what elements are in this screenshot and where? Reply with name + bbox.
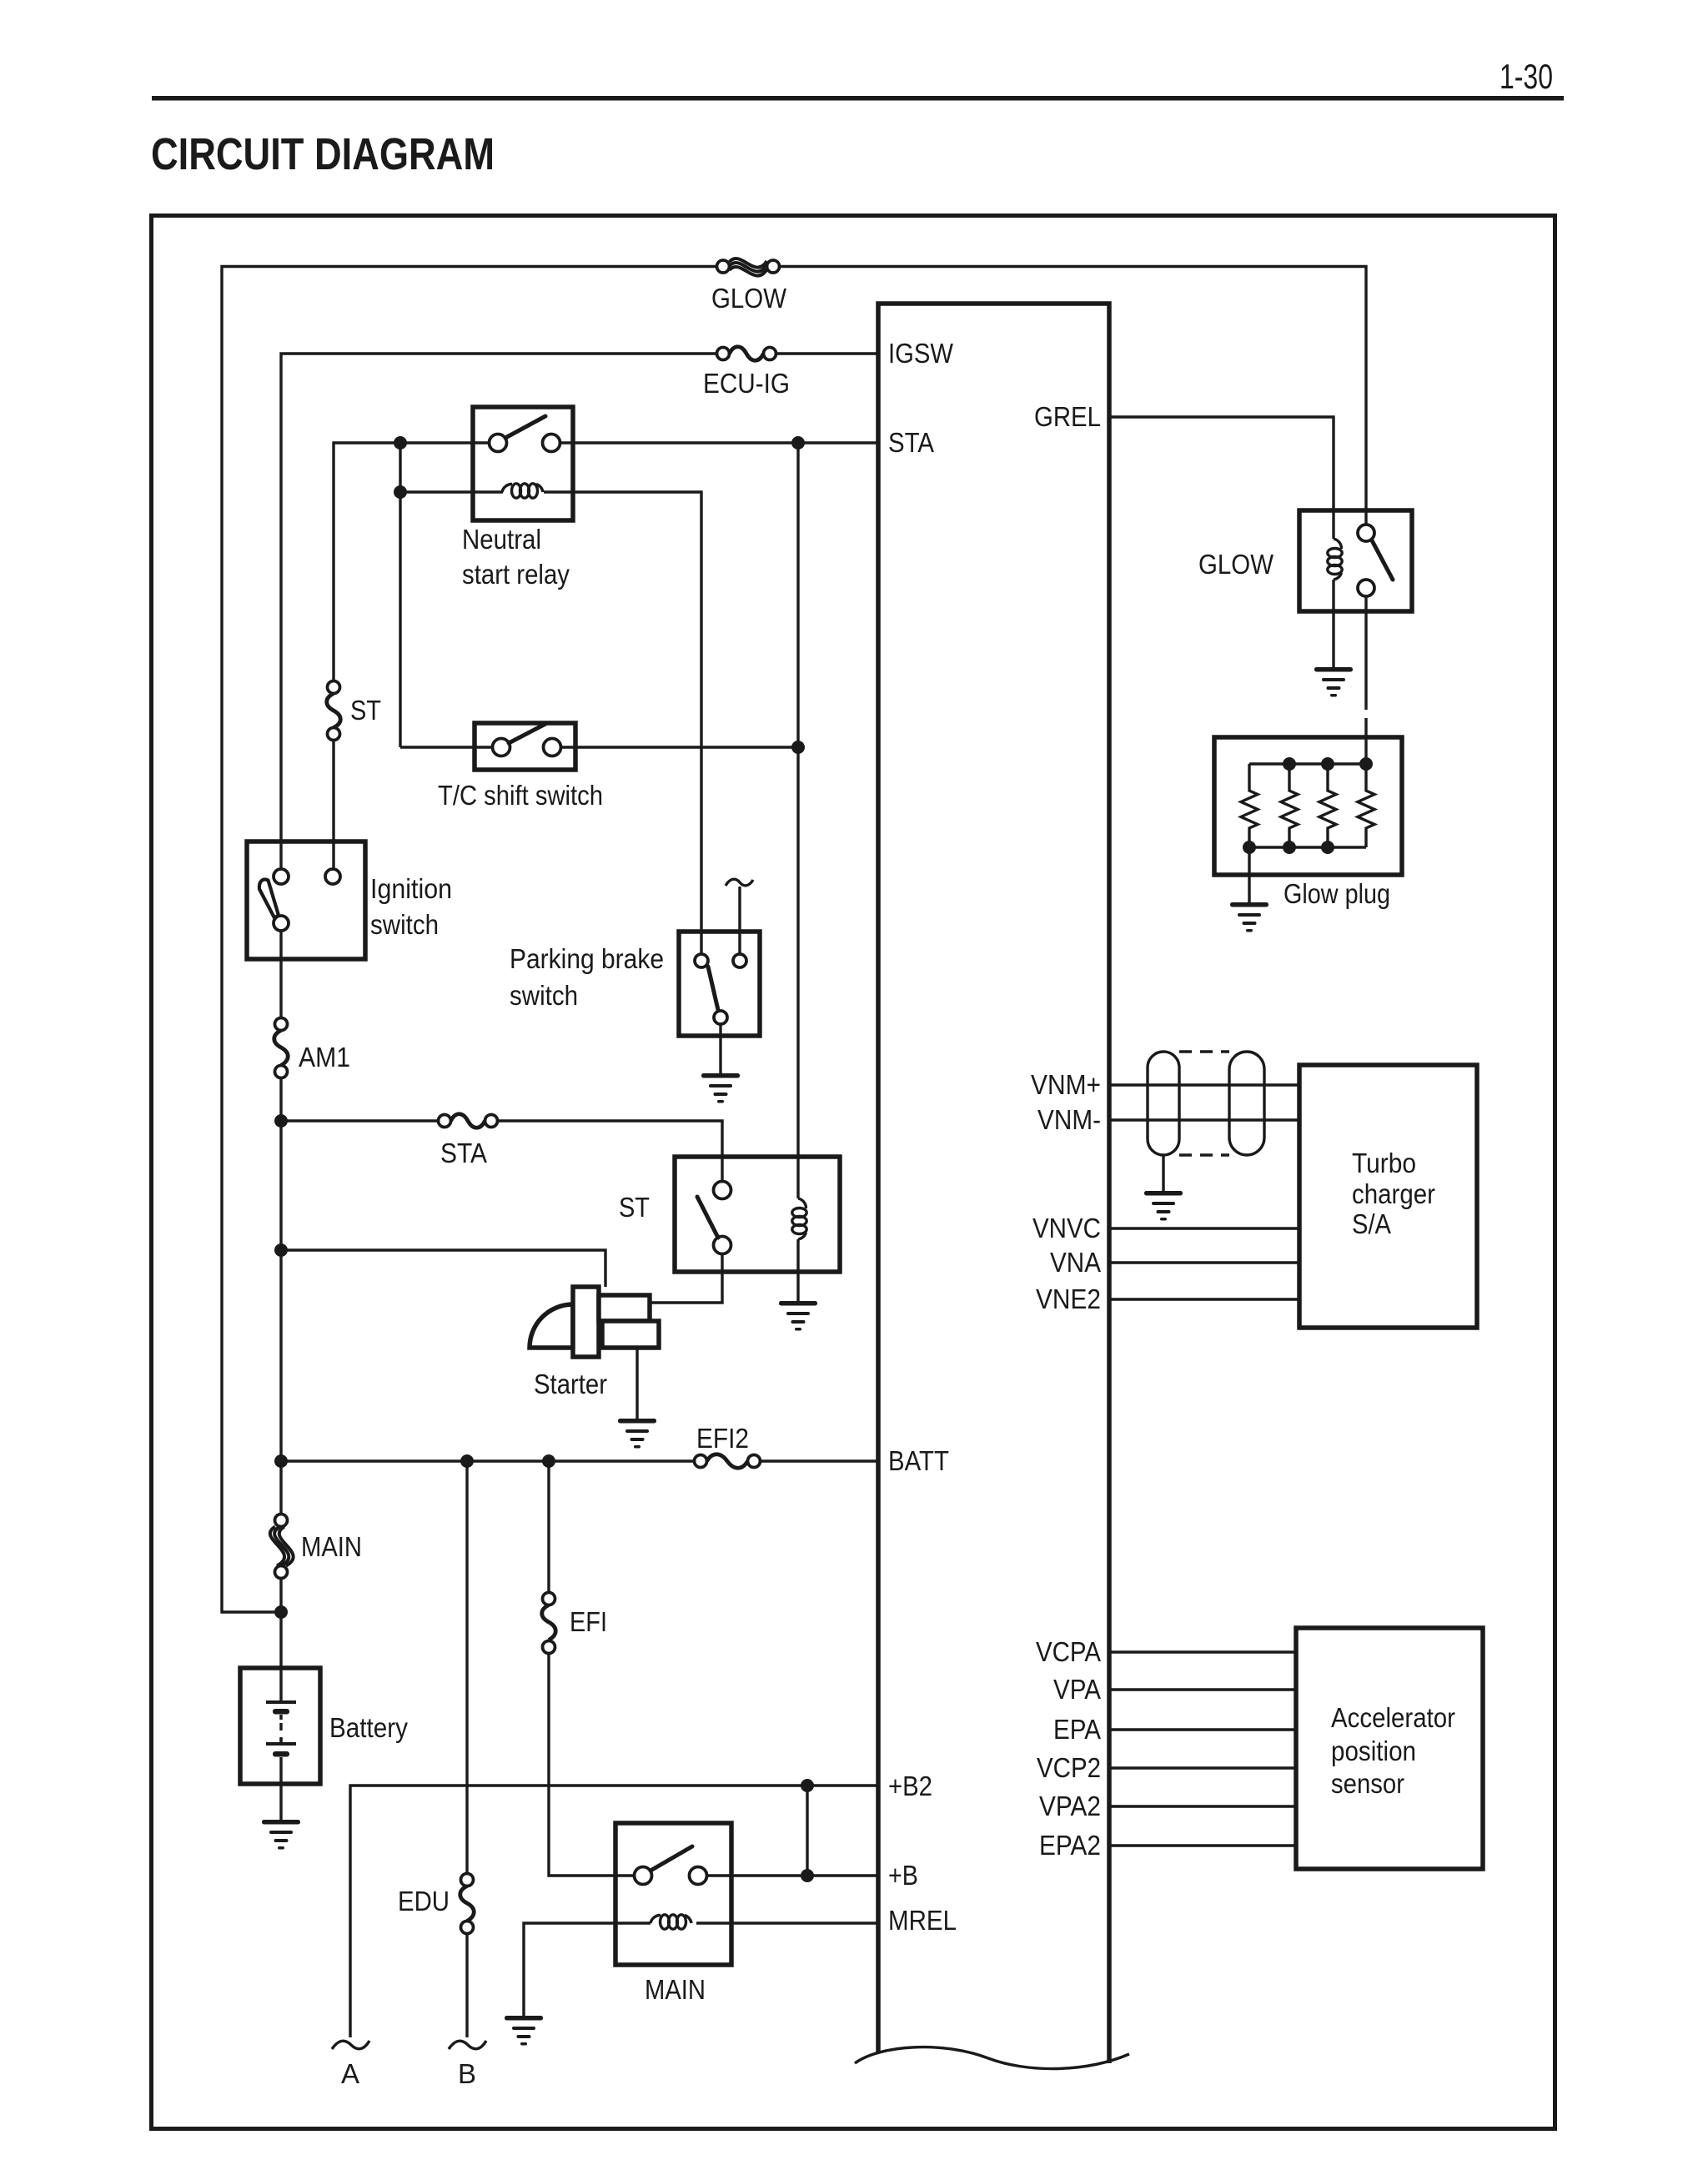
wire: T/C switch left xyxy=(400,746,493,748)
twisted pair shield dashes xyxy=(1179,1052,1229,1155)
svg-text:MAIN: MAIN xyxy=(301,1531,362,1562)
switch S2 T/C shift switch box xyxy=(475,723,575,770)
svg-text:STA: STA xyxy=(888,427,934,458)
label Parking brake switch xyxy=(510,943,664,1011)
node: coil junction at x480 xyxy=(394,485,407,499)
wire: VNA xyxy=(1109,1261,1299,1263)
svg-text:switch: switch xyxy=(510,980,578,1011)
svg-text:VCPA: VCPA xyxy=(1036,1636,1101,1667)
wire: VPA2 xyxy=(1109,1805,1296,1807)
wire: parking brake to ground xyxy=(719,1025,721,1074)
relay U4 lever xyxy=(1372,540,1393,580)
svg-text:ST: ST xyxy=(619,1192,650,1223)
svg-text:EDU: EDU xyxy=(398,1886,450,1916)
wire: MAIN fuse to battery xyxy=(279,1579,282,1701)
wire: VNVC xyxy=(1109,1227,1299,1229)
svg-text:charger: charger xyxy=(1352,1178,1435,1209)
wire: STA net right part to STA pin xyxy=(560,441,878,444)
resistor: glow plug 4 xyxy=(1358,764,1374,847)
node: T/C junction xyxy=(791,741,805,754)
svg-text:S/A: S/A xyxy=(1352,1208,1391,1239)
wire: VPA xyxy=(1109,1688,1296,1690)
wire: main battery feed line xyxy=(279,1078,282,1514)
wire: EFI to MAIN relay xyxy=(549,1654,635,1876)
relay U4 contacts xyxy=(1358,525,1374,596)
glow plug top bus xyxy=(1249,762,1366,765)
wire: ST relay coil to ground xyxy=(796,1239,799,1301)
relay U3 lever xyxy=(651,1846,692,1871)
svg-text:T/C shift switch: T/C shift switch xyxy=(438,780,603,811)
glow plug box xyxy=(1214,737,1402,875)
svg-text:VNE2: VNE2 xyxy=(1036,1283,1101,1314)
wire: EPA xyxy=(1109,1728,1296,1730)
svg-text:EFI: EFI xyxy=(570,1606,607,1637)
ground: starter xyxy=(618,1419,656,1449)
svg-text:Neutral: Neutral xyxy=(462,524,541,555)
resistor: glow plug 3 xyxy=(1319,764,1336,847)
relay U1 switch lever xyxy=(505,416,545,438)
wire: VCPA xyxy=(1109,1650,1296,1653)
switch S2 lever xyxy=(509,723,547,743)
ground: glow relay coil xyxy=(1314,667,1353,697)
wire: GLOW feed (left frame loop) xyxy=(222,267,717,1613)
wire: ignition to AM1 xyxy=(279,931,282,1018)
node: glow bus dots bottom xyxy=(1243,841,1334,854)
ECU bottom tear wave xyxy=(855,2047,1129,2069)
wire: ST relay output to starter xyxy=(650,1254,722,1304)
node: EFI branch junction xyxy=(542,1454,555,1468)
svg-text:ST: ST xyxy=(350,695,381,726)
svg-text:BATT: BATT xyxy=(888,1445,949,1476)
switch S1 contacts xyxy=(274,869,340,931)
wire: ECU-IG feed xyxy=(281,354,717,870)
wire: GLOW fuse to glow relay xyxy=(780,267,1367,525)
svg-text:MREL: MREL xyxy=(888,1905,957,1936)
svg-text:ECU-IG: ECU-IG xyxy=(703,368,790,399)
node: starter branch junction xyxy=(274,1243,288,1257)
turbo charger S/A box xyxy=(1299,1065,1477,1328)
wire: ECU-IG fuse to IGSW pin xyxy=(776,352,879,354)
svg-text:GREL: GREL xyxy=(1034,401,1101,432)
battery B1 box xyxy=(240,1668,320,1784)
svg-text:EFI2: EFI2 xyxy=(696,1423,749,1454)
border frame xyxy=(152,216,1555,2129)
relay U1 switch contacts xyxy=(490,435,560,452)
fuse GLOW (fusible link) xyxy=(717,259,780,276)
wire: STA net left part xyxy=(334,443,489,681)
starter M1 body rect xyxy=(573,1287,599,1357)
wire: battery to ground xyxy=(279,1757,282,1820)
switch S3 lever xyxy=(708,967,718,1010)
node: STA fuse junction xyxy=(274,1114,288,1128)
wire: coil feed from x480 xyxy=(400,490,503,493)
header rule xyxy=(152,96,1564,101)
fuse STA xyxy=(439,1114,498,1128)
switch S3 Parking brake switch box xyxy=(679,932,760,1036)
fuse EFI2 xyxy=(695,1454,761,1469)
tilde: connector B xyxy=(449,2041,486,2049)
wire: ST fuse to ignition switch xyxy=(332,741,334,870)
wire: STA fuse to ST relay xyxy=(498,1121,723,1182)
svg-text:Ignition: Ignition xyxy=(370,873,452,904)
wire: +B2 to +B link xyxy=(806,1786,808,1876)
wire: EDU branch upper xyxy=(465,1461,468,1874)
wire: BATT wire left xyxy=(281,1459,695,1462)
node: STA junction at x480 xyxy=(394,436,407,450)
wire: EFI branch upper xyxy=(547,1461,550,1593)
label Ignition switch xyxy=(370,873,452,940)
wire: MAIN relay coil to MREL pin xyxy=(696,1921,878,1924)
wire: STA pin to ST relay coil (x957) xyxy=(796,443,799,1198)
wire: MAIN relay output to +B pin xyxy=(707,1874,879,1876)
relay U3 MAIN relay box xyxy=(615,1823,731,1965)
wire: starter feed xyxy=(281,1250,605,1287)
accelerator position sensor box xyxy=(1296,1628,1483,1869)
svg-text:VPA2: VPA2 xyxy=(1039,1791,1101,1821)
svg-text:switch: switch xyxy=(370,909,439,940)
label Turbo charger S/A xyxy=(1352,1148,1435,1239)
svg-text:EPA: EPA xyxy=(1053,1714,1101,1745)
starter M1 solenoid lower xyxy=(602,1321,659,1348)
svg-text:VNVC: VNVC xyxy=(1032,1213,1101,1243)
node: BATT junction xyxy=(274,1454,288,1468)
ground: shield xyxy=(1144,1191,1183,1221)
wire: MAIN relay coil to ground xyxy=(524,1923,651,2016)
wire: shield to ground xyxy=(1162,1155,1164,1191)
svg-text:VNM-: VNM- xyxy=(1037,1104,1101,1135)
node: STA junction at x957 xyxy=(791,436,805,450)
svg-text:Battery: Battery xyxy=(329,1712,408,1743)
twisted pair shield loop 1 xyxy=(1148,1052,1179,1155)
svg-text:Turbo: Turbo xyxy=(1352,1148,1416,1178)
tilde: connector A xyxy=(332,2041,369,2049)
wire: glow relay coil to ground xyxy=(1332,580,1334,667)
svg-text:A: A xyxy=(341,2058,359,2089)
node: +B2 junction xyxy=(801,1779,814,1792)
svg-text:IGSW: IGSW xyxy=(888,338,954,369)
svg-text:VNM+: VNM+ xyxy=(1031,1069,1101,1100)
starter M1 solenoid upper xyxy=(599,1295,650,1321)
wire: VCP2 xyxy=(1109,1766,1296,1769)
wire: GREL to glow relay coil xyxy=(1109,417,1334,539)
svg-text:AM1: AM1 xyxy=(299,1042,350,1072)
svg-text:MAIN: MAIN xyxy=(645,1974,706,2005)
ground: battery xyxy=(262,1820,300,1850)
label Neutral start relay xyxy=(462,524,570,590)
wire: +B2 wire from connector A xyxy=(350,1786,878,2037)
resistor: glow plug 1 xyxy=(1241,764,1258,847)
ECU box xyxy=(878,304,1109,2063)
wire: T/C switch right xyxy=(561,746,799,748)
fuse EFI xyxy=(542,1593,556,1654)
wire: VNE2 xyxy=(1109,1298,1299,1300)
svg-text:+B2: +B2 xyxy=(888,1771,932,1801)
node: +B junction xyxy=(801,1869,814,1882)
switch S2 contacts xyxy=(493,739,561,756)
svg-text:Glow plug: Glow plug xyxy=(1284,878,1390,909)
relay U4 coil xyxy=(1328,539,1342,580)
switch S1 lever (key wedge) xyxy=(259,880,279,918)
relay U4 GLOW relay box xyxy=(1299,510,1412,611)
ground: ST relay coil xyxy=(779,1301,817,1331)
svg-text:B: B xyxy=(458,2058,476,2089)
relay U3 contacts xyxy=(635,1867,707,1885)
switch S3 contacts xyxy=(695,954,746,1024)
node: frame loop junction xyxy=(274,1605,288,1619)
relay U2 ST relay box xyxy=(675,1157,840,1272)
svg-text:sensor: sensor xyxy=(1331,1768,1404,1799)
svg-text:start relay: start relay xyxy=(462,559,570,590)
svg-text:1-30: 1-30 xyxy=(1500,57,1553,96)
relay U1 Neutral start relay box xyxy=(473,407,573,520)
wire: glow relay switch to glow plug xyxy=(1364,597,1367,765)
label Accelerator position sensor xyxy=(1331,1702,1455,1799)
wire: VNM- xyxy=(1109,1118,1299,1121)
ground: glow plug xyxy=(1230,902,1268,932)
svg-text:Accelerator: Accelerator xyxy=(1331,1702,1455,1733)
resistor: glow plug 2 xyxy=(1281,764,1298,847)
wire: coil to parking brake switch xyxy=(544,492,701,953)
wire: EPA2 xyxy=(1109,1844,1296,1846)
svg-text:VCP2: VCP2 xyxy=(1037,1752,1101,1783)
wire: STA fuse feed xyxy=(281,1119,439,1122)
fuse EDU xyxy=(460,1874,475,1934)
relay U2 contacts xyxy=(714,1182,731,1254)
svg-text:VPA: VPA xyxy=(1053,1674,1101,1705)
svg-text:EPA2: EPA2 xyxy=(1039,1830,1101,1861)
relay U2 lever xyxy=(697,1197,718,1238)
svg-text:GLOW: GLOW xyxy=(1198,549,1274,580)
wire: tilde to contact xyxy=(738,887,741,954)
node: glow bus dots top xyxy=(1283,757,1373,771)
twisted pair shield loop 2 xyxy=(1229,1052,1264,1155)
node: EDU branch junction xyxy=(460,1454,474,1468)
fuse MAIN (fusible link) xyxy=(270,1514,294,1579)
relay U3 coil xyxy=(651,1915,691,1929)
wire: vertical link x480 (STA to coil to T/C) xyxy=(399,443,401,747)
switch S1 Ignition switch box xyxy=(247,841,365,959)
tilde: parking brake continuation xyxy=(726,879,753,886)
svg-text:CIRCUIT DIAGRAM: CIRCUIT DIAGRAM xyxy=(151,129,495,179)
wire: VNM+ xyxy=(1109,1083,1299,1086)
wire: EFI2 to BATT pin xyxy=(761,1459,879,1462)
relay U2 coil xyxy=(792,1198,806,1239)
svg-text:STA: STA xyxy=(440,1138,487,1168)
ground: parking brake xyxy=(701,1073,740,1103)
fuse AM1 xyxy=(274,1018,289,1078)
starter M1 quarter disc xyxy=(530,1304,573,1348)
svg-text:VNA: VNA xyxy=(1050,1247,1101,1278)
wire: glow plug to ground xyxy=(1248,847,1250,902)
glow plug bottom bus xyxy=(1249,846,1366,848)
fuse ST xyxy=(327,681,341,741)
svg-text:GLOW: GLOW xyxy=(711,283,787,314)
wire: EDU to connector B xyxy=(465,1934,468,2038)
svg-text:Parking brake: Parking brake xyxy=(510,943,664,974)
svg-text:Starter: Starter xyxy=(534,1369,607,1399)
relay U1 coil xyxy=(502,484,543,498)
battery B1 plates xyxy=(266,1700,296,1757)
fuse ECU-IG xyxy=(717,347,776,361)
svg-text:position: position xyxy=(1331,1736,1416,1766)
svg-text:+B: +B xyxy=(888,1860,918,1891)
ground: MAIN relay coil xyxy=(505,2016,543,2046)
wire: starter to ground xyxy=(635,1348,638,1419)
